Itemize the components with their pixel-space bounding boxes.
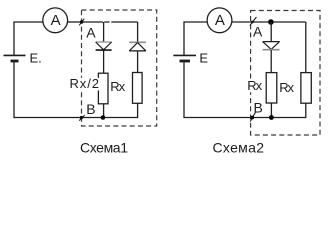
svg-text:B: B	[86, 101, 95, 117]
wire battery minus down and along bottom to node B	[14, 61, 103, 118]
wire junction down to diode VD1	[103, 22, 105, 42]
node B label scheme2	[254, 100, 263, 116]
wire top-left: battery plus up and right to ammeter (scheme2)	[184, 22, 207, 55]
wire battery minus down and along bottom to node B (scheme2)	[184, 61, 271, 118]
label Rx (scheme2 left)	[246, 78, 263, 93]
wire top-left: battery plus up and right to ammeter	[14, 22, 43, 55]
node B label scheme1	[86, 101, 95, 117]
wire resistor to node B (scheme2 left)	[270, 103, 272, 118]
resistor Rx (scheme2 left)	[266, 73, 277, 103]
wire right branch scheme2: down from top wire to resistor	[305, 22, 307, 73]
battery E2	[173, 50, 208, 65]
wire Rx/2 to node B	[103, 104, 105, 118]
ammeter PA2	[207, 8, 232, 33]
svg-text:A: A	[215, 12, 225, 29]
resistor Rx (scheme1 right)	[133, 73, 143, 104]
svg-text:E: E	[199, 50, 208, 65]
svg-text:Rx: Rx	[110, 79, 125, 94]
node B junction dot scheme1	[101, 115, 106, 120]
wire ammeter to box entry (scheme2)	[232, 21, 251, 23]
node B junction dot scheme2	[269, 115, 274, 120]
terminal marker top entry scheme1	[79, 19, 84, 26]
wire Rx down and left to node B	[103, 103, 138, 117]
node A label scheme2	[253, 23, 263, 39]
svg-text:Rx: Rx	[247, 78, 262, 93]
terminal marker bottom entry scheme1	[79, 115, 84, 121]
wire scheme2 right resistor down and left to node B	[271, 103, 305, 117]
wire top inside box scheme1	[82, 21, 138, 23]
wire top inside box scheme2	[251, 21, 306, 23]
ammeter PA1	[43, 8, 68, 33]
junction dot top scheme2	[268, 19, 274, 25]
svg-text:A: A	[51, 12, 61, 29]
svg-text:Rx: Rx	[279, 80, 294, 95]
diode VD1 (cathode down)	[96, 42, 112, 50]
label Rx (scheme1)	[110, 79, 125, 94]
label Rx/2	[69, 76, 101, 91]
wire right branch top, down to diode VD2	[137, 22, 139, 42]
svg-text:A: A	[253, 23, 263, 39]
wire VD1 to resistor Rx/2	[103, 51, 105, 74]
resistor Rx/2	[98, 73, 108, 104]
svg-text:Схема1: Схема1	[80, 139, 128, 155]
caption Схема2	[213, 139, 265, 155]
dashed measurement box of scheme 1	[82, 10, 157, 126]
svg-text:E.: E.	[30, 50, 42, 65]
resistor Rx (scheme2 right)	[301, 73, 311, 104]
svg-text:Rx/2: Rx/2	[70, 76, 100, 91]
caption Схема1	[80, 139, 128, 155]
wire VD2 to resistor Rx	[137, 51, 139, 73]
wire VD3 to resistor Rx (scheme2 left)	[270, 50, 272, 73]
node A label scheme1	[86, 24, 96, 40]
wire ammeter to box entry	[68, 21, 82, 23]
terminal marker bottom entry scheme2	[250, 112, 256, 122]
wire junction down to diode VD3	[270, 22, 272, 42]
label Rx (scheme2 right)	[279, 80, 294, 95]
diode VD3 (cathode down)	[263, 42, 280, 50]
terminal marker top entry scheme2	[250, 17, 257, 26]
diode VD2 (cathode up, reversed)	[129, 42, 146, 51]
svg-text:Схема2: Схема2	[213, 139, 265, 155]
svg-text:A: A	[86, 24, 96, 40]
dashed measurement box of scheme 2	[251, 11, 320, 136]
battery E1	[4, 50, 42, 65]
